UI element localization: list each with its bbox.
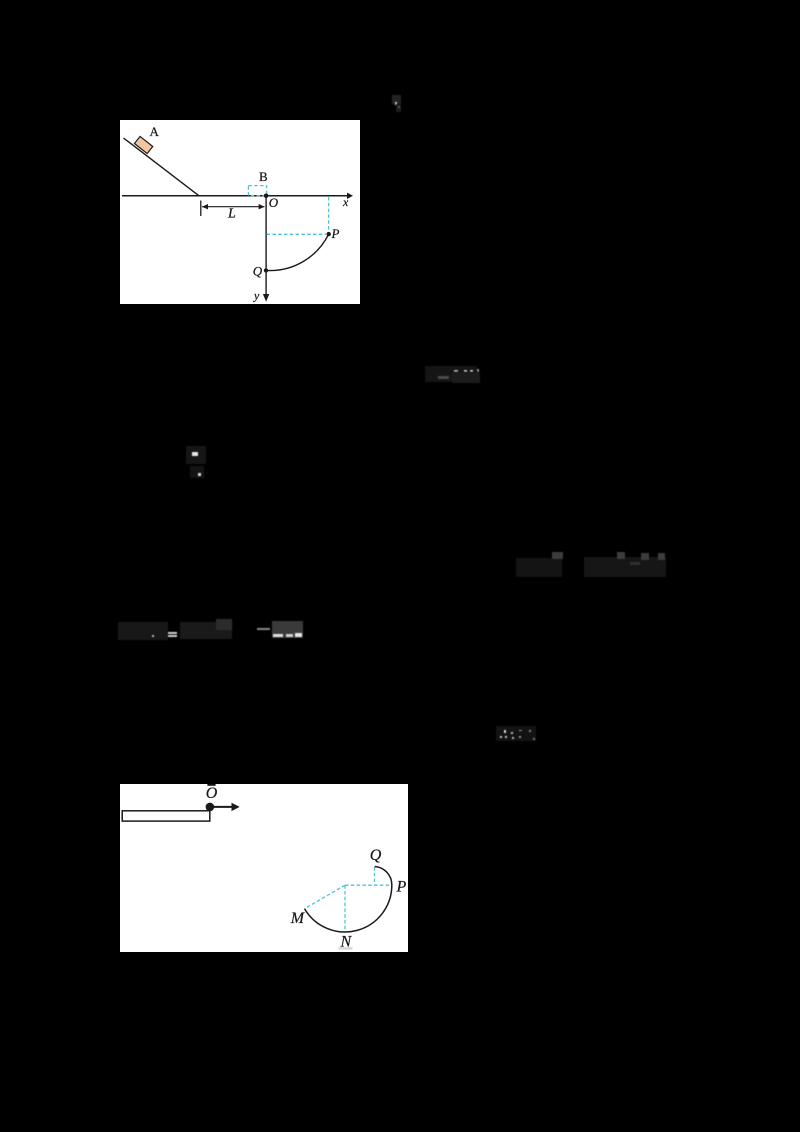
incline surface	[124, 138, 200, 196]
ground line with x-axis arrow	[122, 195, 348, 197]
svg-text:y: y	[253, 289, 260, 303]
dashed vertical to P	[328, 197, 330, 231]
black notch at top edge	[207, 784, 215, 786]
y axis	[265, 196, 267, 297]
point P dot	[327, 232, 331, 236]
svg-text:Q: Q	[253, 263, 263, 278]
svg-text:B: B	[259, 169, 268, 184]
L measure tick	[200, 201, 202, 217]
svg-text:A: A	[150, 124, 160, 139]
faint formula row remnant	[118, 622, 168, 640]
faint sqrt(2R/g) specks	[496, 726, 536, 741]
table board rectangle	[122, 811, 210, 821]
L double arrow	[202, 206, 265, 208]
faint fraction remnant left	[186, 446, 206, 464]
point Q dot	[264, 268, 268, 272]
svg-text:P: P	[396, 879, 407, 896]
dashed horizontal to P	[267, 233, 326, 235]
dashed horizontal center to P	[345, 884, 392, 886]
trajectory curve Q to P	[266, 234, 329, 270]
block A on incline	[134, 136, 152, 153]
faint formula remnant h=1/2gt2	[425, 366, 477, 382]
point O dot	[206, 803, 215, 812]
svg-text:P: P	[331, 226, 340, 241]
dashed box B on ground	[248, 186, 266, 196]
svg-text:x: x	[342, 195, 349, 209]
figure panel 1: incline / projectile diagram	[120, 120, 360, 304]
svg-text:M: M	[290, 910, 306, 927]
dashed radius center to M	[305, 885, 345, 908]
figure panel 2: table edge / circular track diagram	[120, 784, 408, 952]
faint formula remnant top (v0 fraction)	[392, 95, 401, 104]
faint formula remnant vP2 = v2 - 2gh	[516, 558, 562, 577]
dashed vertical from Q	[374, 867, 376, 885]
svg-text:O: O	[206, 785, 218, 802]
svg-text:L: L	[227, 207, 236, 222]
velocity arrow	[213, 806, 233, 808]
node O dot	[264, 194, 269, 199]
svg-text:O: O	[269, 195, 279, 210]
dashed vertical center to N	[344, 885, 346, 931]
circular track arc Q-P-N-M	[305, 867, 392, 932]
svg-text:Q: Q	[370, 847, 382, 864]
gray underline below N	[339, 947, 353, 949]
